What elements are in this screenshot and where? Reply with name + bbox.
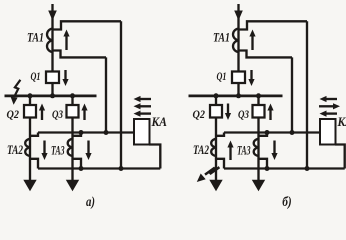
svg-text:ТА3: ТА3 <box>51 144 65 158</box>
wire: TA1 secondary bottom vertical down to line A (right) <box>291 57 293 132</box>
arrow: TA3 secondary current down (right) <box>273 141 275 155</box>
svg-text:ТА2: ТА2 <box>7 143 23 157</box>
relay KA (right) <box>320 119 336 145</box>
wire: TA1 secondary bottom tap (right) <box>239 51 292 58</box>
arrow: Q3 current up (left) <box>83 110 85 121</box>
node: TA1 top tap on line B (left) <box>119 166 124 171</box>
current transformer TA3 (right) coil <box>254 139 260 156</box>
arrow: differential current 3 into relay (left) <box>140 112 152 114</box>
node: TA3 tap on line A (right) <box>265 130 270 135</box>
wire: TA1 secondary bottom vertical down to line A (left) <box>105 57 107 132</box>
arrow: differential current 3 into relay (right) <box>326 112 338 114</box>
arrow: Q1 current down (left) <box>64 70 66 80</box>
wire: TA3 secondary bottom tap (right) <box>259 159 268 169</box>
wire: TA2 secondary top tap (right) <box>216 133 224 136</box>
wire: TA1 secondary top vertical down to return line (right) <box>306 21 308 168</box>
svg-text:б): б) <box>282 195 292 210</box>
wire: TA3 secondary top tap (right) <box>259 133 268 136</box>
wire: relay KA bottom terminal hook (right) <box>335 145 345 169</box>
wire: line B - relay return line (right) <box>224 167 345 169</box>
svg-text:ТА3: ТА3 <box>237 144 251 158</box>
wire: outgoing line Q2 (right) <box>215 96 217 180</box>
breaker Q3 (right) <box>253 105 265 118</box>
relay KA (left) <box>134 119 150 145</box>
wire: outgoing line Q3 (right) <box>257 96 259 180</box>
arrow: TA1 secondary current up (right) <box>251 36 253 51</box>
busbar (left) <box>5 95 97 98</box>
arrow: Q1 current down (right) <box>250 70 252 80</box>
wire: incoming feeder right <box>237 4 239 96</box>
wire: outgoing line Q2 (left) <box>29 96 31 180</box>
current transformer TA2 (right) coil <box>211 139 217 156</box>
wire: TA3 secondary bottom tap (left) <box>73 159 82 169</box>
current transformer TA2 (left) coil <box>25 139 31 156</box>
node: bus junction Q3 (left) <box>70 93 75 98</box>
node: TA1 top tap on line B (right) <box>305 166 310 171</box>
breaker Q2 (right) <box>210 105 222 118</box>
breaker Q1 (left) <box>46 72 59 84</box>
node: TA3 tap on line A (left) <box>79 130 84 135</box>
arrowhead: feeder current into bus (left) <box>48 11 57 21</box>
breaker Q2 (left) <box>24 105 36 118</box>
wire: TA1 secondary top tap (right) <box>239 21 307 29</box>
node: TA1 bottom tap on line A (right) <box>290 130 295 135</box>
wire: TA2 secondary bottom tap (left) <box>30 159 38 169</box>
wire: line A - paralleled CT secondaries to relay (left) <box>38 131 134 133</box>
arrow: differential current 1 into relay (right) <box>326 98 338 100</box>
wire: incoming feeder left <box>51 4 53 96</box>
breaker Q3 (left) <box>67 105 79 118</box>
svg-text:Q3: Q3 <box>52 109 63 121</box>
svg-text:ТА2: ТА2 <box>193 143 209 157</box>
arrow: differential current 2 reversed (circuit b) <box>319 105 334 107</box>
node: bus junction feeder (right) <box>236 93 241 98</box>
arrow: TA2 secondary current down (circuit a) <box>43 141 45 155</box>
node: TA1 bottom tap on line A (left) <box>104 130 109 135</box>
svg-text:КА: КА <box>151 114 168 129</box>
svg-text:Q1: Q1 <box>217 71 227 83</box>
arrow: TA1 secondary current up (left) <box>65 36 67 51</box>
arrowhead: line Q2 continues down (right) <box>209 180 222 192</box>
node: bus junction Q2 (right) <box>214 93 219 98</box>
wire: TA2 secondary bottom tap (right) <box>216 159 224 169</box>
current transformer TA1 (right) coil <box>233 29 239 53</box>
svg-text:Q2: Q2 <box>7 109 20 121</box>
svg-text:ТА1: ТА1 <box>213 31 230 45</box>
svg-text:Q1: Q1 <box>31 71 41 83</box>
arrow: Q3 current up (right) <box>269 110 271 121</box>
current transformer TA3 (left) coil <box>68 139 74 156</box>
arrow: Q2 current down (circuit b) <box>227 104 229 115</box>
wire: TA1 secondary bottom tap (left) <box>53 51 106 58</box>
arrow: TA3 secondary current down (left) <box>87 141 89 155</box>
wire: TA1 secondary top vertical down to return line (left) <box>120 21 122 168</box>
svg-text:Q2: Q2 <box>193 109 206 121</box>
svg-text:ТА1: ТА1 <box>27 31 44 45</box>
node: bus junction Q2 (left) <box>28 93 33 98</box>
arrow: differential current 2 into relay (circuit a) <box>140 105 152 107</box>
wire: line A - paralleled CT secondaries to relay (right) <box>224 131 320 133</box>
svg-text:Q3: Q3 <box>238 109 249 121</box>
arrow: Q2 current up (circuit a) <box>41 110 43 121</box>
lightning: fault on busbar (circuit a) <box>14 80 20 97</box>
wire: TA2 secondary top tap (left) <box>30 133 38 136</box>
arrowhead: line Q3 continues down (left) <box>66 180 79 192</box>
arrow: TA2 secondary current up (circuit b) <box>229 147 231 161</box>
node: TA3 tap on line B (right) <box>265 166 270 171</box>
breaker Q1 (right) <box>232 72 245 84</box>
busbar (right) <box>189 95 283 98</box>
wire: TA1 secondary top tap (left) <box>53 21 121 29</box>
node: bus junction Q3 (right) <box>256 93 261 98</box>
current transformer TA1 (left) coil <box>47 29 53 53</box>
wire: TA3 secondary top tap (left) <box>73 133 82 136</box>
arrowhead: line Q2 continues down (left) <box>23 180 36 192</box>
wire: outgoing line Q3 (left) <box>71 96 73 180</box>
node: bus junction feeder (left) <box>50 93 55 98</box>
svg-text:а): а) <box>86 195 95 210</box>
node: TA3 tap on line B (left) <box>79 166 84 171</box>
arrow: differential current 1 into relay (left) <box>140 98 152 100</box>
arrowhead: feeder current into bus (right) <box>234 11 243 21</box>
svg-text:КА: КА <box>337 114 346 129</box>
lightning: external fault on line Q2 (circuit b) <box>205 167 219 174</box>
arrowhead: line Q3 continues down (right) <box>252 180 265 192</box>
wire: line B - relay return line (left) <box>38 167 160 169</box>
wire: relay KA bottom terminal hook (left) <box>149 145 160 169</box>
